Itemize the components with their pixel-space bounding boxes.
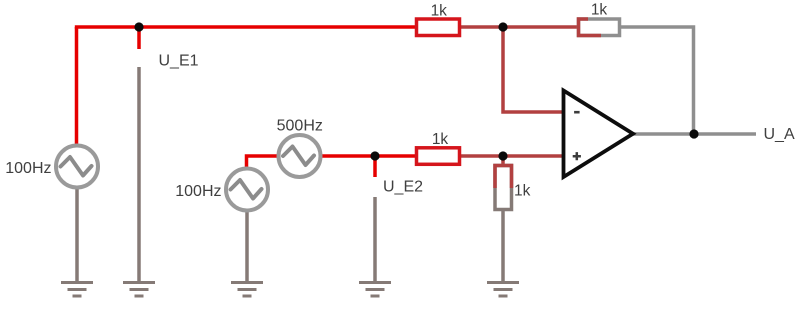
node U_A junction dot (output) <box>689 129 698 138</box>
svg-text:1k: 1k <box>431 3 448 20</box>
wire: node A to R2 left lead (dark red) <box>503 25 578 29</box>
svg-text:1k: 1k <box>591 2 608 19</box>
resistor R3 1k (bottom input resistor) <box>417 148 460 165</box>
wire: red stub node B to R4 top <box>501 156 505 166</box>
wire: R1 right lead to node A (dark red) <box>460 25 503 29</box>
wire: node U_E2 to R3 (bright red) <box>375 154 417 158</box>
wire: V2 bottom lead to ground (warm gray) <box>245 211 249 282</box>
svg-text:100Hz: 100Hz <box>5 160 51 177</box>
voltage source V3 500Hz <box>279 135 321 177</box>
wire: R4 bottom lead to ground (warm gray) <box>501 210 505 282</box>
node B junction dot (non-inverting net) <box>498 151 507 160</box>
wire: R2 right lead to corner and down to output (gray) <box>619 27 694 134</box>
wire: U_E2 probe to ground (warm gray) <box>373 197 377 282</box>
node U_E2 junction dot <box>370 151 379 160</box>
resistor R4 1k (vertical, to ground) : top half dark red, bottom half warm gray <box>495 166 512 210</box>
svg-text:100Hz: 100Hz <box>175 183 221 200</box>
wire: R3 right lead to node B (dark red) <box>460 154 503 158</box>
svg-text:U_A: U_A <box>764 126 795 143</box>
wire: node B to op-amp non-inverting input (dark red) <box>503 154 562 158</box>
wire: red stub below node U_E2 <box>373 156 377 177</box>
svg-text:1k: 1k <box>514 183 531 200</box>
ground: under R4 <box>487 283 519 297</box>
svg-text:U_E2: U_E2 <box>383 179 423 196</box>
wire: red stub below node U_E1 <box>137 27 141 49</box>
wire: V1 top vertical (bright red) <box>75 27 79 145</box>
ground: under U_E1 probe <box>123 283 155 297</box>
wire: V2 top elbow to V3 (bright red) <box>247 156 279 168</box>
voltage source V2 100Hz (middle) <box>226 169 268 211</box>
svg-text:U_E1: U_E1 <box>159 53 199 70</box>
resistor R1 1k (top input resistor) <box>417 19 460 36</box>
wire: node A down and right to op-amp inverting input (dark red) <box>503 27 562 112</box>
ground: under V1 <box>61 283 93 297</box>
ground: under U_E2 probe <box>359 283 391 297</box>
wire: V3 right to node U_E2 (bright red) <box>321 154 375 158</box>
node A junction dot (inverting net) <box>498 22 507 31</box>
voltage source V1 100Hz (left) <box>56 146 98 188</box>
node U_E1 junction dot <box>134 22 143 31</box>
wire: op-amp output to U_A (gray) <box>633 132 756 136</box>
wire: U_E1 probe to ground (warm gray) <box>137 67 141 282</box>
resistor R2 1k (feedback) : left half dark red, right half gray <box>579 19 620 36</box>
op-amp U1 <box>564 91 634 178</box>
ground: under V2 <box>231 283 263 297</box>
svg-text:1k: 1k <box>432 131 449 148</box>
svg-text:500Hz: 500Hz <box>277 118 323 135</box>
wire: V1 bottom lead to ground (warm gray) <box>75 188 79 282</box>
wire: top horizontal from V1 corner to R1 (bright red) <box>75 25 416 29</box>
